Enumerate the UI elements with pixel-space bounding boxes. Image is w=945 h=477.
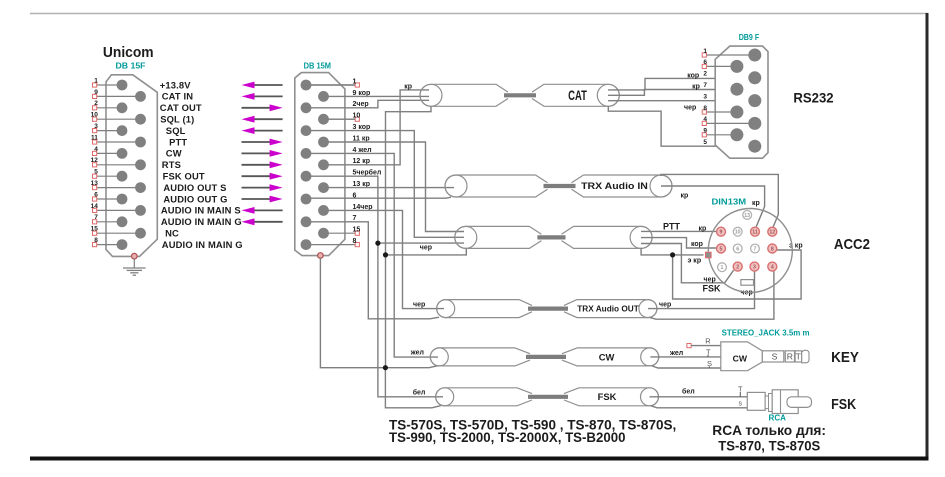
svg-text:TRX Audio IN: TRX Audio IN [581,181,648,191]
CW cable left cable-end circle [430,348,448,366]
svg-text:T: T [796,352,802,362]
FSK cable left cable-end circle [436,388,454,406]
svg-text:7: 7 [703,82,707,89]
pin 1 DB15F [117,80,128,91]
DB9F pin 4 terminal square [702,121,706,125]
CW cable cable run [526,355,566,359]
TRX Audio IN cable cable run [544,184,576,188]
TRX Audio OUT cable right cable-end circle [639,300,657,318]
wire jack S lead (shield) [652,366,721,368]
DB15M pin 1 terminal square [355,83,359,87]
svg-text:жел: жел [669,350,683,357]
svg-text:DIN13M: DIN13M [712,196,747,206]
wire DB9F pin 9 stub [706,134,737,136]
svg-text:2: 2 [736,265,739,271]
TRX Audio OUT cable left capsule [437,300,532,318]
arrow row pin 14 (L) [252,209,283,211]
stereo jack plug S band [762,351,784,362]
pin 3 DB15M [301,125,312,136]
CAT cable left cable-end circle [420,84,442,106]
PTT cable cable run [537,235,565,239]
svg-text:PTT: PTT [663,222,681,232]
TRX Audio IN cable left capsule [445,175,548,197]
pin 11 DB15M [318,137,329,148]
svg-text:11: 11 [91,134,98,141]
svg-text:+13.8V: +13.8V [160,79,191,90]
pin 10 DB15F [135,114,146,125]
svg-text:7: 7 [754,247,757,253]
arrow row pin 1 (L) [252,84,283,86]
FSK cable right cable-end circle [641,388,659,406]
stereo jack plug T band [795,351,802,362]
wire PTT чер to DIN pin2 (FSK) [641,244,734,283]
svg-text:8: 8 [771,247,774,253]
connector DB15F body [106,75,157,257]
svg-text:ACC2: ACC2 [834,236,870,253]
DIN13M key notch [741,280,754,286]
svg-text:13: 13 [91,180,99,187]
arrow row pin 4 (R) [242,152,272,154]
pin 6 DB15M [301,194,312,205]
DB15F pin 13 terminal square [93,186,97,190]
wire pin13 кр to TRX Audio IN [324,187,455,189]
wire shield bus to CW cable [385,366,438,368]
DB9F pin 1 terminal square [702,53,706,57]
svg-text:2: 2 [94,100,98,107]
wire shield bus to FSK cable [385,368,441,408]
wire PTT shield to DIN shield [641,248,703,255]
pin 14 DB15F [135,205,146,216]
svg-text:8: 8 [703,105,707,112]
pin 10 DB15M [318,114,329,125]
pin 2 DB15F [117,102,128,113]
DIN13M pin 7 [751,244,760,253]
svg-text:11: 11 [752,230,758,236]
pin 11 DB15F [135,137,146,148]
DIN13M pin 9 [717,227,726,236]
wire DB15F pin 9 stub [95,95,141,97]
wire CAT shield to DB9F pin5 [608,106,749,146]
svg-text:CAT IN: CAT IN [162,91,194,102]
wire pin12 кр to CAT [324,90,430,165]
svg-text:15: 15 [91,226,99,233]
svg-text:DB9 F: DB9 F [739,33,760,42]
wire PTT кор to DIN pin5 [641,238,717,248]
svg-text:Unicom: Unicom [103,45,154,61]
DB15F pin 5 terminal square [93,174,97,178]
pin 15 DB15F [135,228,146,239]
wire pin5 чер/бел down [306,176,378,243]
svg-text:3: 3 [753,265,756,271]
svg-text:9: 9 [720,230,723,236]
svg-text:s: s [739,400,743,407]
svg-text:2: 2 [703,71,707,78]
svg-text:TRX Audio OUT: TRX Audio OUT [577,304,639,314]
CAT cable left capsule [420,84,508,106]
DB15F pin 9 terminal square [93,94,97,98]
wire pin3 кор to PTT cable [306,131,464,238]
svg-text:R: R [705,336,711,345]
pin 4 DB9F [748,117,761,130]
DB15F pin 10 terminal square [93,117,97,121]
svg-text:NC: NC [165,228,179,239]
junction shield bus / shell / CW shield [383,365,388,370]
wire TRX Audio IN кр to DIN pin11 [661,186,765,227]
wire pin9 кор to CAT [324,95,430,97]
wire DB9F pin 6 stub [706,65,737,67]
svg-text:кор: кор [687,72,699,79]
stereo jack plug tip [802,350,809,363]
svg-text:RCA только для:: RCA только для: [712,423,826,438]
wire DB15F pin 6 stub [95,198,122,200]
DIN13M pin 2 [733,262,742,271]
wire DB15F pin 5 stub [95,175,122,177]
pin 8 DB9F [730,106,743,119]
DB15M shell ground point [318,253,324,259]
DIN13M pin 3 [750,262,759,271]
wire pin4 жел to CW cable [306,153,438,357]
svg-text:10: 10 [735,230,741,236]
svg-text:4: 4 [703,116,707,123]
svg-text:9: 9 [94,89,98,96]
svg-text:1: 1 [721,265,724,271]
svg-text:FSK: FSK [831,396,856,413]
wire DB15F pin 13 stub [95,187,141,189]
wire DB15F pin 11 stub [95,141,141,143]
svg-text:AUDIO IN MAIN G: AUDIO IN MAIN G [162,239,243,250]
pin 5 DB15M [301,171,312,182]
TRX Audio IN cable right capsule [572,175,673,197]
DB15F shell ground point [132,253,138,259]
svg-text:5: 5 [94,169,98,176]
DIN13M pin 8 [768,244,777,253]
pin 1 DB9F [748,49,761,62]
wire DB15M pin1 to square [306,84,355,86]
DB15F pin 4 terminal square [93,151,97,155]
wire чер branch to PTT cable [378,242,464,244]
DIN13M pin 13 [743,211,752,220]
svg-text:R: R [787,352,793,362]
CAT cable cable run [504,93,536,97]
FSK cable right capsule [564,388,659,406]
svg-text:CW: CW [599,351,615,362]
svg-text:кр: кр [681,193,689,200]
svg-text:5: 5 [703,139,707,146]
DB15F pin 3 terminal square [93,129,97,133]
wire DB9F pin 1 stub [706,54,755,56]
pin 5 DB15F [117,171,128,182]
pin 15 DB15M [318,228,329,239]
pin 13 DB15F [135,182,146,193]
pin 12 DB15F [135,159,146,170]
pin 9 DB15F [135,91,146,102]
stereo jack body [721,342,763,371]
svg-text:бел: бел [413,388,426,396]
RCA center pin [787,397,812,408]
pin 2 DB15M [301,102,312,113]
wire shield bus down [385,255,387,368]
TRX Audio IN cable left cable-end circle [445,175,467,197]
wire CAT shield down to bus [386,107,432,255]
pin 9 DB15M [318,91,329,102]
DB15F pin 11 terminal square [93,140,97,144]
wire DB15M pin 8 stub [306,244,355,246]
wire DB15F pin 10 stub [95,118,141,120]
FSK cable left capsule [436,388,532,406]
svg-text:жел: жел [410,349,424,356]
svg-text:4: 4 [771,265,774,271]
CW cable left capsule [430,348,530,366]
svg-text:AUDIO OUT S: AUDIO OUT S [163,182,226,193]
svg-text:AUDIO IN MAIN G: AUDIO IN MAIN G [161,216,242,227]
wire DB15F pin 1 stub [95,84,122,86]
pin 7 DB9F [730,83,743,96]
svg-text:6: 6 [94,191,98,198]
svg-text:RCA: RCA [769,413,787,422]
wire DB9F pin 8 stub [706,111,737,113]
DB15F pin 14 terminal square [93,208,97,212]
ground [123,268,146,275]
wire DB15F pin 8 stub [95,244,122,246]
connector DB15M body [295,73,345,256]
arrow row pin 13 (R) [242,187,272,189]
PTT cable left cable-end circle [455,226,477,248]
svg-text:CAT: CAT [568,88,587,103]
wire DB15F pin 15 stub [95,232,141,234]
pin 14 DB15M [318,205,329,216]
wire DB15F pin 4 stub [95,152,122,154]
svg-text:SQL (1): SQL (1) [160,114,194,125]
svg-text:чер: чер [413,302,425,309]
wire shield loop to DIN pin8 [673,250,802,299]
svg-text:15: 15 [353,227,361,234]
junction shield / pin8 loop [670,252,675,257]
arrow row pin 7 (L) [252,221,283,223]
svg-text:кр: кр [692,84,700,91]
wire pin7 to TRX Audio OUT shield [306,222,439,319]
svg-text:TS-870, TS-870S: TS-870, TS-870S [718,438,820,453]
TRX Audio OUT cable cable run [528,307,568,311]
svg-text:12: 12 [769,230,775,236]
svg-text:TS-990, TS-2000, TS-2000X, T: TS-990, TS-2000, TS-2000X, TS-B2000 [389,430,626,445]
wire pin11 кр to PTT cable [324,142,465,232]
pin 13 DB15M [318,182,329,193]
wire RCA T lead (бел) [650,396,748,398]
svg-text:7: 7 [94,214,98,221]
pin 2 DB9F [748,71,761,84]
svg-text:4: 4 [94,146,98,153]
svg-text:DB 15M: DB 15M [304,62,332,71]
DB9F pin 9 terminal square [702,133,706,137]
jack R terminal square [687,344,691,348]
svg-text:1: 1 [703,48,707,55]
wire DB15M pin 1 stub [306,84,355,86]
pin 8 DB15M [301,239,312,250]
TRX Audio IN cable right cable-end circle [650,175,672,197]
svg-text:чер: чер [684,105,696,112]
wire бел branch to FSK cable [378,243,443,397]
svg-text:CAT OUT: CAT OUT [160,102,202,113]
svg-text:FSK: FSK [598,391,617,402]
svg-text:14: 14 [91,203,99,210]
arrow row pin 3 (L) [252,130,283,132]
wire TRX Audio OUT shield to DIN pin4 [650,271,774,319]
svg-text:6: 6 [736,247,739,253]
DIN13M pin 4 [768,262,777,271]
pin 6 DB15F [117,194,128,205]
DB15F pin 15 terminal square [93,231,97,235]
DIN13M pin 10 [733,227,742,236]
wire DB9F pin 4 stub [706,122,755,124]
junction чер/бел split [375,241,380,246]
pin 5 DB9F [748,140,761,153]
DIN13M pin 6 [733,244,742,253]
wire shell to ground [133,259,135,269]
DB9F pin 6 terminal square [702,64,706,68]
pin 6 DB9F [730,60,743,73]
RCA plug ring 1 [765,396,768,409]
svg-text:чер: чер [420,244,432,251]
wire DB15M pin 15 stub [324,232,356,234]
svg-text:5чербел: 5чербел [353,169,382,177]
wire PTT кр to DIN pin9 [641,230,717,232]
pin 12 DB15M [318,159,329,170]
svg-text:PTT: PTT [169,136,187,147]
arrow row pin 6 (R) [242,198,272,200]
DB15F pin 1 terminal square [93,83,97,87]
wire pin6 to TRX Audio IN shield [306,197,451,198]
svg-text:чер: чер [659,301,671,308]
svg-text:9: 9 [703,128,707,135]
pin 3 DB15F [117,125,128,136]
PTT cable right capsule [562,226,653,248]
DIN13M pin 5 [717,244,726,253]
arrow row pin 9 (L) [252,95,283,97]
pin 1 DB15M [301,80,312,91]
svg-text:S: S [772,352,778,362]
svg-text:RTS: RTS [162,159,181,170]
wire jack T lead (жел) [650,356,720,358]
pin 7 DB15M [301,216,312,227]
svg-text:CW: CW [733,354,748,363]
wire DB15F pin 2 stub [95,107,122,109]
svg-text:SQL: SQL [166,125,186,136]
CAT cable right cable-end circle [597,84,619,106]
svg-text:кор: кор [691,241,703,248]
wire DB15F pin 7 stub [95,221,122,223]
connector DB9F body [715,46,768,158]
connector DIN13M outline [708,209,792,293]
svg-text:кр: кр [404,83,412,90]
arrow row pin 12 (R) [242,164,272,166]
pin 4 DB15F [117,148,128,159]
stereo jack plug R band [785,351,794,362]
CAT cable right capsule [532,84,619,106]
PTT cable left capsule [455,226,542,248]
svg-text:13: 13 [744,213,750,219]
DB15M pin 8 terminal square [355,243,359,247]
DIN13M shield terminal square [706,252,712,258]
DB15F pin 8 terminal square [93,243,97,247]
wire TRX Audio IN shield to DIN pin12 [661,174,778,226]
svg-text:э кр: э кр [688,258,702,265]
svg-text:5: 5 [720,247,723,253]
wire shield bus to PTT cable [386,248,467,255]
wire DB15F pin 14 stub [95,209,141,211]
wire TRX Audio OUT чер to DIN pin3 [648,271,755,308]
arrow row pin 2 (R) [242,107,272,109]
arrow row pin 11 (R) [242,141,272,143]
svg-text:1: 1 [94,77,98,84]
svg-text:STEREO_JACK 3.5m m: STEREO_JACK 3.5m m [722,328,810,337]
DB15M pin 15 terminal square [355,231,359,235]
TRX Audio OUT cable left cable-end circle [437,300,455,318]
FSK cable cable run [528,395,568,399]
CW cable right cable-end circle [641,348,659,366]
pin 4 DB15M [301,148,312,159]
svg-text:AUDIO IN MAIN S: AUDIO IN MAIN S [161,205,241,216]
RCA plug ring 2 [769,394,773,412]
svg-text:FSK OUT: FSK OUT [163,171,205,182]
svg-text:AUDIO OUT G: AUDIO OUT G [163,193,227,204]
wire DB15F pin 3 stub [95,130,122,132]
DB9F pin 8 terminal square [702,110,706,114]
RCA plug body [772,390,798,414]
svg-text:12: 12 [91,157,99,164]
PTT cable right cable-end circle [630,226,652,248]
DB15F pin 7 terminal square [93,220,97,224]
DB15F pin 12 terminal square [93,163,97,167]
DIN13M pin 1 [718,263,727,272]
wire RCA S lead (shield) [651,406,747,408]
svg-text:CW: CW [166,148,182,159]
svg-text:FSK: FSK [703,284,722,294]
DIN13M pin 11 [751,227,760,236]
wire DB15M pin 10 stub [324,118,356,120]
CW cable right capsule [562,348,659,366]
pin 7 DB15F [117,216,128,227]
wire DB15M pin10 to square [324,118,356,120]
arrow row pin 5 (R) [242,175,272,177]
wire CAT чер to DB9F pin3 [608,100,749,102]
wire CAT кр to DB9F pin7 [608,90,732,96]
svg-text:8: 8 [94,237,98,244]
TRX Audio OUT cable right capsule [564,300,657,318]
svg-text:8: 8 [353,238,357,245]
pin 9 DB9F [730,128,743,141]
wire jack R lead [691,345,721,347]
DB15M pin 10 terminal square [355,117,359,121]
wire DB15F pin 12 stub [95,164,141,166]
RCA plug rear barrel [747,392,765,410]
wire CAT кор to DB9F pin2 [608,78,749,90]
wire pin2 чер to CAT [306,100,429,108]
pin 3 DB9F [748,94,761,107]
arrow row pin 10 (L) [252,118,283,120]
DB15F pin 2 terminal square [93,106,97,110]
wire DB15M shell to shield bus [320,258,385,368]
svg-text:кр: кр [699,225,707,232]
svg-text:10: 10 [91,112,99,119]
svg-text:3: 3 [94,123,98,130]
junction shield bus / PTT shield [383,252,388,257]
svg-text:чер: чер [704,277,716,284]
svg-text:3: 3 [703,93,707,100]
wire pin14 чер to TRX Audio OUT [324,210,445,308]
svg-text:кр: кр [752,200,760,207]
svg-text:RS232: RS232 [793,89,833,105]
pin 8 DB15F [117,239,128,250]
